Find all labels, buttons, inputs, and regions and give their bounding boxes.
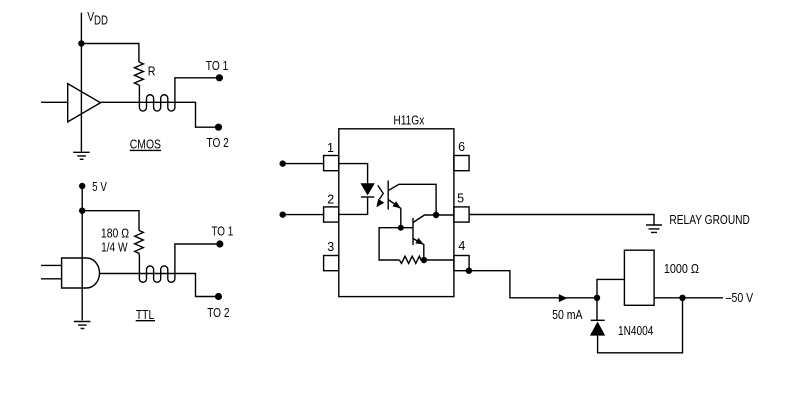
wire Q1 emitter to Q2 base (401, 227, 413, 229)
svg-text:5 V: 5 V (92, 180, 107, 194)
wire VDD to resistor R (81, 44, 138, 63)
wire collector node to pin 5 (436, 214, 454, 216)
svg-text:TO 1: TO 1 (211, 225, 233, 239)
svg-text:CMOS: CMOS (130, 137, 161, 151)
node TO 2 terminal (TTL) (215, 293, 222, 300)
svg-text:TO 2: TO 2 (207, 136, 229, 150)
IC body H11Gx (339, 129, 454, 297)
wire node to pin 4 (424, 259, 454, 261)
wire input 1 to pin 1 (283, 163, 324, 165)
transistor Q2 collector (413, 215, 436, 223)
svg-text:6: 6 (458, 140, 465, 154)
wire input 2 to pin 2 (283, 214, 324, 216)
wire pin 5 to relay ground (469, 215, 654, 226)
svg-text:1N4004: 1N4004 (618, 324, 653, 338)
wire relay coil to -50V (654, 297, 723, 299)
transistor Q2 emitter (413, 239, 424, 261)
pin 5 box (454, 207, 469, 222)
coil twisted pair (CMOS) (139, 78, 216, 111)
svg-text:1000 Ω: 1000 Ω (664, 262, 699, 276)
resistor R (134, 62, 143, 85)
LED D1 (360, 183, 374, 195)
node collector/pin5 junction (433, 212, 439, 218)
node Q2 base junction (398, 225, 404, 231)
pin 4 box (454, 256, 469, 271)
node TO 2 terminal (CMOS) (215, 124, 222, 131)
ground (CMOS) (73, 152, 89, 159)
node 5V terminal (79, 183, 85, 189)
transistor Q2 base bar (412, 218, 414, 245)
svg-text:180 Ω: 180 Ω (101, 226, 129, 240)
wire LED cathode to pin 2 (339, 197, 368, 214)
svg-text:50 mA: 50 mA (552, 308, 583, 322)
wire gate input 2 (41, 278, 62, 280)
node input terminal 2 (280, 211, 286, 217)
wire gate output through line to TO 2 (100, 274, 216, 297)
diode 1N4004 (591, 319, 605, 321)
pin 1 box (324, 156, 339, 171)
AND gate TTL (62, 258, 100, 288)
wire VDD stub (80, 13, 82, 44)
svg-text:1: 1 (327, 141, 334, 155)
ground (TTL) (74, 322, 90, 329)
transistor Q1 emitter (388, 200, 401, 228)
node input terminal 1 (280, 160, 286, 166)
svg-text:RELAY GROUND: RELAY GROUND (669, 213, 750, 227)
photon arrow (378, 185, 383, 199)
wire pin 1 to LED anode (339, 164, 368, 184)
resistor 180 ohm (135, 231, 144, 256)
wire node A to relay coil (597, 279, 624, 297)
node B (679, 295, 685, 301)
pin 3 box (324, 256, 339, 271)
node VDD junction (78, 40, 84, 46)
wire buffer output through line to TO 2 (101, 102, 216, 127)
wire diode to node B (598, 298, 683, 353)
wire 5V down through gate to ground (81, 186, 83, 320)
wire vertical through buffer to ground (80, 44, 82, 152)
ground relay (646, 225, 662, 232)
coil twisted pair (TTL) (139, 244, 216, 282)
pin 2 box (324, 207, 339, 222)
svg-text:2: 2 (327, 192, 334, 206)
wire node A to diode (596, 298, 598, 321)
pin 6 box (454, 156, 469, 171)
svg-text:–50 V: –50 V (726, 291, 754, 305)
wire pin 4 to node A (469, 271, 597, 298)
arrow 50 mA (559, 294, 568, 302)
node TO 1 terminal (CMOS) (216, 74, 223, 81)
node 5V junction (79, 208, 85, 214)
node TO 1 terminal (TTL) (216, 240, 223, 247)
relay coil 1000 ohm (624, 250, 654, 305)
wire junction to resistor 180 (82, 211, 139, 231)
svg-text:5: 5 (457, 191, 464, 205)
op-amp buffer (CMOS gate) (68, 84, 101, 122)
wire buffer input (41, 101, 68, 103)
node A (594, 295, 600, 301)
wire Q2 base to internal resistor (379, 228, 401, 260)
svg-text:TO 1: TO 1 (206, 59, 229, 73)
node emitter/resistor junction (421, 257, 427, 263)
svg-text:1/4 W: 1/4 W (101, 241, 128, 255)
wire gate input 1 (41, 264, 62, 266)
node pin 4 corner (466, 268, 472, 274)
svg-text:DD: DD (94, 13, 108, 27)
svg-text:3: 3 (327, 240, 334, 254)
svg-text:R: R (148, 65, 156, 79)
resistor internal (399, 256, 424, 263)
svg-text:H11Gx: H11Gx (393, 113, 425, 127)
transistor Q1 base bar (387, 181, 389, 210)
transistor Q1 collector (388, 184, 436, 215)
svg-text:TO 2: TO 2 (207, 306, 229, 320)
svg-text:4: 4 (458, 239, 465, 253)
